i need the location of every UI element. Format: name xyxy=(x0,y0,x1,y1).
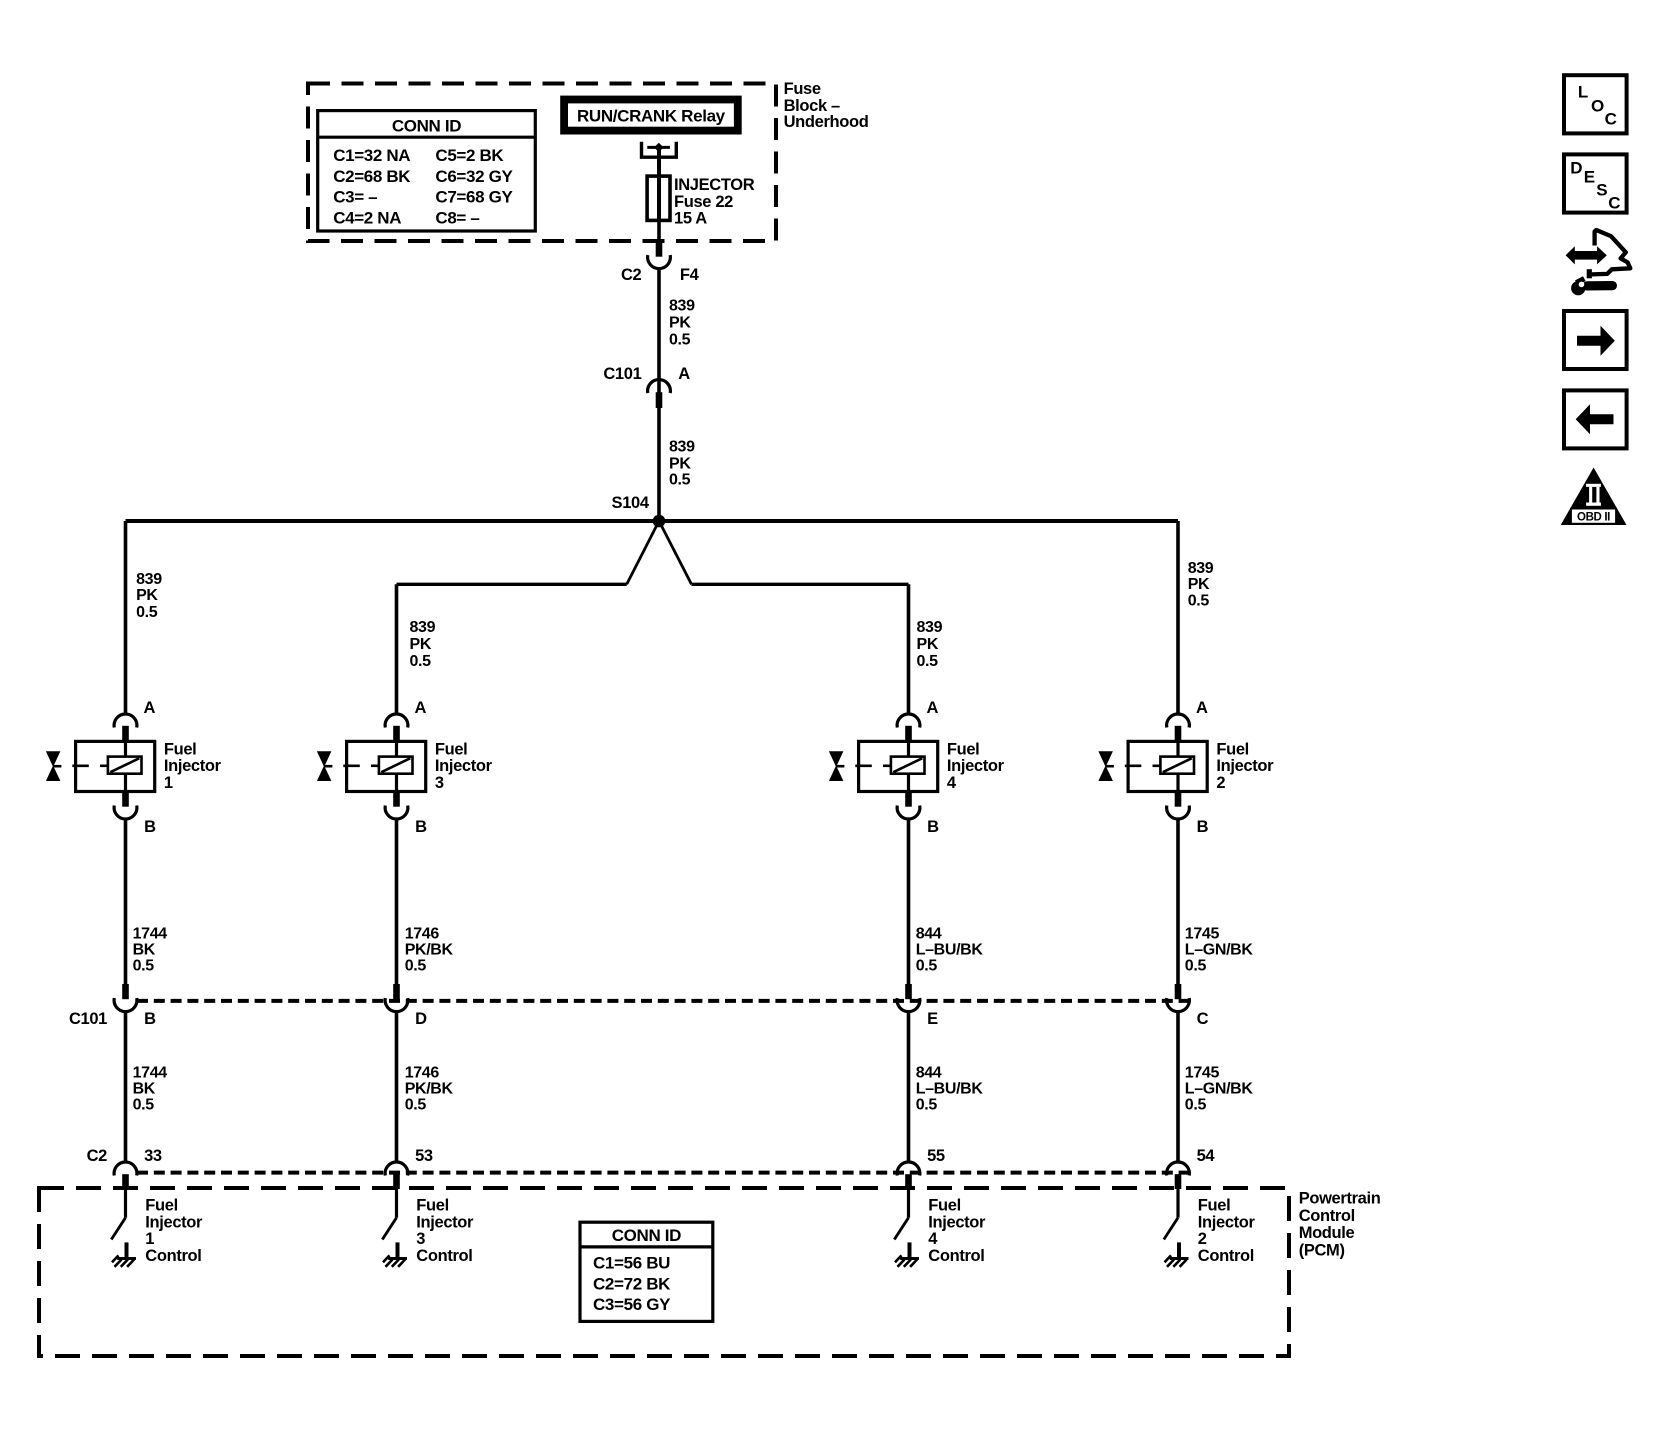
svg-text:839: 839 xyxy=(669,439,695,456)
wire C2-F4 to C101 xyxy=(657,268,661,380)
svg-text:S104: S104 xyxy=(612,494,650,512)
wire S104 branch down to injector 3 xyxy=(395,584,399,714)
svg-text:0.5: 0.5 xyxy=(917,653,939,670)
svg-text:Control: Control xyxy=(928,1247,984,1265)
svg-text:PK/BK: PK/BK xyxy=(405,941,454,958)
fuel injector 4 box xyxy=(859,741,938,791)
svg-text:L: L xyxy=(1578,82,1588,101)
svg-text:839: 839 xyxy=(136,571,162,588)
svg-text:A: A xyxy=(927,699,939,717)
svg-text:C8= –: C8= – xyxy=(435,209,479,228)
PCM driver wire (col 3) xyxy=(395,1189,398,1218)
wire injector 1 to C101 xyxy=(124,819,128,984)
svg-text:C: C xyxy=(1608,193,1620,212)
wire C101 to C2 (col 1) xyxy=(124,1011,128,1162)
svg-text:2: 2 xyxy=(1198,1230,1207,1248)
connector C2 male pin (col 3) xyxy=(393,1174,400,1189)
connector C101 male pin (col 1) xyxy=(122,984,129,999)
svg-text:1744: 1744 xyxy=(133,925,168,942)
fuel injector 3 coil xyxy=(379,757,413,774)
svg-text:PK: PK xyxy=(410,636,432,653)
fuel injector 4 internal wire top xyxy=(907,741,910,757)
svg-text:0.5: 0.5 xyxy=(136,604,158,621)
svg-text:RUN/CRANK Relay: RUN/CRANK Relay xyxy=(577,107,726,126)
svg-text:A: A xyxy=(1196,699,1208,717)
svg-text:Injector: Injector xyxy=(1198,1213,1256,1231)
svg-text:INJECTOR: INJECTOR xyxy=(674,176,755,194)
fuse F22 INJECTOR 15A xyxy=(647,176,670,220)
wire relay to fuse xyxy=(657,148,661,177)
svg-text:0.5: 0.5 xyxy=(669,332,691,349)
svg-text:PK: PK xyxy=(917,636,939,653)
PCM driver switch (col 2) xyxy=(1164,1218,1178,1240)
svg-text:PK: PK xyxy=(1188,576,1210,593)
svg-text:Fuel: Fuel xyxy=(1198,1197,1231,1215)
svg-text:PK: PK xyxy=(669,456,691,473)
svg-text:Fuel: Fuel xyxy=(928,1197,961,1215)
svg-text:0.5: 0.5 xyxy=(1188,593,1210,610)
fuel injector 1 internal wire top xyxy=(124,741,127,757)
connector pin B cup (injector 1) xyxy=(114,806,137,820)
svg-text:839: 839 xyxy=(917,619,943,636)
connector pin B cup (injector 3) xyxy=(385,806,408,820)
svg-text:Underhood: Underhood xyxy=(784,113,869,131)
PCM driver switch (col 1) xyxy=(111,1218,125,1240)
svg-text:55: 55 xyxy=(927,1147,945,1165)
connector pin B cup (injector 2) xyxy=(1167,806,1190,820)
svg-text:0.5: 0.5 xyxy=(669,472,691,489)
connector pin B stub (injector 1) xyxy=(122,792,129,807)
connector C2 female cap (col 4) xyxy=(897,1162,920,1176)
connector ID table (PCM) xyxy=(580,1222,713,1321)
svg-text:0.5: 0.5 xyxy=(916,1097,938,1114)
fuel injector 3 internal wire bottom xyxy=(395,774,398,792)
icon OBD II triangle xyxy=(1561,468,1627,526)
connector pin B stub (injector 4) xyxy=(905,792,912,807)
svg-text:C3=56 GY: C3=56 GY xyxy=(593,1295,671,1314)
svg-text:CONN ID: CONN ID xyxy=(612,1226,681,1245)
svg-text:Fuel: Fuel xyxy=(164,741,197,759)
connector C101 female cup (col 1) xyxy=(114,998,137,1012)
svg-text:Fuel: Fuel xyxy=(416,1197,449,1215)
fuel injector 1 internal wire bottom xyxy=(124,774,127,792)
svg-text:B: B xyxy=(1197,818,1209,836)
svg-text:F4: F4 xyxy=(680,266,700,284)
wire S104 branch down to injector 2 xyxy=(1176,521,1180,715)
svg-text:Injector: Injector xyxy=(1216,757,1274,775)
PCM driver switch (col 4) xyxy=(894,1218,908,1240)
svg-text:1: 1 xyxy=(164,774,173,792)
svg-text:C3= –: C3= – xyxy=(333,188,377,207)
svg-text:1746: 1746 xyxy=(405,1064,440,1081)
connector C2 male pin (col 2) xyxy=(1175,1174,1182,1189)
svg-text:L–GN/BK: L–GN/BK xyxy=(1185,941,1254,958)
wire C101 to C2 (col 4) xyxy=(907,1011,911,1162)
fuel injector 2 box xyxy=(1128,741,1207,791)
connector C2 male pin (col 4) xyxy=(905,1174,912,1189)
icon forward arrow box xyxy=(1564,311,1627,369)
svg-text:(PCM): (PCM) xyxy=(1299,1242,1345,1260)
svg-text:C2: C2 xyxy=(87,1147,108,1165)
fuel injector 2 internal wire top xyxy=(1176,741,1179,757)
PCM driver wire (col 1) xyxy=(124,1189,127,1218)
wire fuse to C2 connector xyxy=(657,220,661,243)
fuel injector 1 box xyxy=(76,741,155,791)
svg-text:C4=2 NA: C4=2 NA xyxy=(333,209,401,228)
svg-text:C1=32 NA: C1=32 NA xyxy=(333,146,410,165)
svg-text:Fuel: Fuel xyxy=(435,741,468,759)
relay pin bracket xyxy=(642,142,677,157)
svg-text:0.5: 0.5 xyxy=(133,958,155,975)
connector pin A cap (injector 1) xyxy=(114,714,137,728)
fuse block underhood dashed box xyxy=(308,84,776,242)
wire S104 branch down to injector 1 xyxy=(124,521,128,715)
svg-text:OBD II: OBD II xyxy=(1577,511,1610,523)
connector C2 female cap (col 2) xyxy=(1167,1162,1190,1176)
svg-text:C: C xyxy=(1197,1010,1209,1028)
fuel injector 4 valve bowtie xyxy=(829,751,844,767)
svg-text:4: 4 xyxy=(928,1230,938,1248)
connector row C101 dashed line xyxy=(137,999,1190,1003)
svg-text:E: E xyxy=(1584,167,1595,186)
svg-text:Control: Control xyxy=(145,1247,201,1265)
svg-text:839: 839 xyxy=(1188,560,1214,577)
svg-text:1745: 1745 xyxy=(1185,925,1220,942)
svg-text:PK: PK xyxy=(669,315,691,332)
svg-text:33: 33 xyxy=(144,1147,162,1165)
wire injector 3 to C101 xyxy=(395,819,399,984)
fuel injector 4 dashed link xyxy=(855,764,872,767)
svg-text:0.5: 0.5 xyxy=(133,1097,155,1114)
svg-text:1745: 1745 xyxy=(1185,1064,1220,1081)
svg-text:L–BU/BK: L–BU/BK xyxy=(916,941,984,958)
connector C2 female cap (col 1) xyxy=(114,1162,137,1176)
svg-text:Control: Control xyxy=(1299,1207,1355,1225)
connector C101 male pin (col 3) xyxy=(393,984,400,999)
svg-text:C2=68 BK: C2=68 BK xyxy=(333,167,411,186)
svg-text:C101: C101 xyxy=(69,1010,107,1028)
svg-text:Injector: Injector xyxy=(164,757,222,775)
icon LOC box xyxy=(1564,75,1627,133)
connector ID table (fuse block) xyxy=(318,111,536,231)
connector row C2 dashed line xyxy=(137,1171,1190,1175)
icon DESC box xyxy=(1564,154,1627,212)
svg-text:C2: C2 xyxy=(621,266,642,284)
fuel injector 3 box xyxy=(347,741,426,791)
svg-text:D: D xyxy=(1570,158,1582,177)
connector pin A stub (injector 3) xyxy=(393,726,400,742)
svg-text:Fuel: Fuel xyxy=(1216,741,1249,759)
fuel injector 1 valve bowtie xyxy=(46,751,61,767)
svg-text:844: 844 xyxy=(916,1064,942,1081)
connector pin B cup (injector 4) xyxy=(897,806,920,820)
svg-text:BK: BK xyxy=(133,1080,156,1097)
svg-text:C5=2 BK: C5=2 BK xyxy=(435,146,504,165)
svg-text:B: B xyxy=(927,818,939,836)
connector C101-A male pin xyxy=(656,392,663,408)
svg-text:0.5: 0.5 xyxy=(916,958,938,975)
svg-text:B: B xyxy=(144,1010,156,1028)
svg-text:1: 1 xyxy=(145,1230,154,1248)
fuel injector 2 coil xyxy=(1160,757,1194,774)
svg-text:839: 839 xyxy=(410,619,436,636)
svg-text:0.5: 0.5 xyxy=(1185,958,1207,975)
svg-text:B: B xyxy=(144,818,156,836)
svg-text:Module: Module xyxy=(1299,1224,1355,1242)
connector pin A stub (injector 1) xyxy=(122,726,129,742)
svg-text:C2=72 BK: C2=72 BK xyxy=(593,1274,671,1293)
PCM driver wire (col 4) xyxy=(907,1189,910,1218)
svg-text:0.5: 0.5 xyxy=(1185,1097,1207,1114)
connector C101 female cup (col 2) xyxy=(1167,998,1190,1012)
svg-text:Fuel: Fuel xyxy=(145,1197,178,1215)
svg-text:C7=68 GY: C7=68 GY xyxy=(435,188,513,207)
fuel injector 3 internal wire top xyxy=(395,741,398,757)
svg-text:C: C xyxy=(1605,110,1617,129)
fuel injector 2 internal wire bottom xyxy=(1176,774,1179,792)
svg-text:Injector: Injector xyxy=(928,1213,986,1231)
connector C2-F4 male pin xyxy=(656,243,663,257)
svg-text:C6=32 GY: C6=32 GY xyxy=(435,167,513,186)
svg-text:0.5: 0.5 xyxy=(410,653,432,670)
svg-text:S: S xyxy=(1596,180,1607,199)
svg-text:C101: C101 xyxy=(603,365,641,383)
connector pin A cap (injector 4) xyxy=(897,714,920,728)
svg-text:0.5: 0.5 xyxy=(405,958,427,975)
svg-text:Powertrain: Powertrain xyxy=(1299,1189,1381,1207)
fuel injector 2 dashed link xyxy=(1125,764,1142,767)
svg-text:Control: Control xyxy=(416,1247,472,1265)
relay K RUN/CRANK box xyxy=(564,100,738,131)
connector C101 female cup (col 4) xyxy=(897,998,920,1012)
connector C101 male pin (col 2) xyxy=(1175,984,1182,999)
svg-text:839: 839 xyxy=(669,298,695,315)
connector C2 female cap (col 3) xyxy=(385,1162,408,1176)
connector C101 male pin (col 4) xyxy=(905,984,912,999)
wire branch horizontal to injector 4 xyxy=(692,583,909,586)
fuel injector 1 coil xyxy=(108,757,142,774)
powertrain control module dashed box xyxy=(39,1188,1289,1356)
connector C101 female cup (col 3) xyxy=(385,998,408,1012)
svg-text:O: O xyxy=(1591,97,1604,116)
connector pin A stub (injector 4) xyxy=(905,726,912,742)
splice S104 bus wire xyxy=(126,519,1179,523)
svg-text:2: 2 xyxy=(1216,774,1225,792)
wire S104 branch down to injector 4 xyxy=(907,584,911,714)
svg-text:L–BU/BK: L–BU/BK xyxy=(916,1080,984,1097)
svg-text:BK: BK xyxy=(133,941,156,958)
connector pin B stub (injector 2) xyxy=(1175,792,1182,807)
connector C2-F4 female cup xyxy=(648,255,671,269)
svg-text:1746: 1746 xyxy=(405,925,440,942)
svg-text:CONN ID: CONN ID xyxy=(392,116,461,135)
svg-text:PK: PK xyxy=(136,587,158,604)
connector C2 male pin (col 1) xyxy=(122,1174,129,1189)
svg-text:C1=56 BU: C1=56 BU xyxy=(593,1253,670,1272)
fuel injector 4 internal wire bottom xyxy=(907,774,910,792)
PCM driver wire (col 2) xyxy=(1176,1189,1179,1218)
connector pin A cap (injector 3) xyxy=(385,714,408,728)
fuel injector 1 dashed link xyxy=(72,764,89,767)
svg-text:D: D xyxy=(415,1010,427,1028)
svg-text:Fuel: Fuel xyxy=(947,741,980,759)
wire injector 4 to C101 xyxy=(907,819,911,984)
svg-text:Injector: Injector xyxy=(435,757,493,775)
wire S104 branch diagonal left xyxy=(627,521,659,584)
wire injector 2 to C101 xyxy=(1176,819,1180,984)
wire C101 to C2 (col 3) xyxy=(395,1011,399,1162)
svg-text:A: A xyxy=(678,365,690,383)
svg-text:L–GN/BK: L–GN/BK xyxy=(1185,1080,1254,1097)
ground (col 2) xyxy=(1177,1242,1181,1257)
wire S104 branch diagonal right xyxy=(659,521,692,584)
svg-text:A: A xyxy=(415,699,427,717)
connector pin B stub (injector 3) xyxy=(393,792,400,807)
connector C101-A female cap xyxy=(648,380,671,394)
splice S104 junction dot xyxy=(653,515,666,528)
svg-text:844: 844 xyxy=(916,925,942,942)
ground (col 1) xyxy=(125,1242,129,1257)
svg-text:53: 53 xyxy=(415,1147,433,1165)
icon back arrow box xyxy=(1564,390,1627,448)
svg-text:15 A: 15 A xyxy=(674,210,707,228)
PCM driver switch (col 3) xyxy=(382,1218,396,1240)
ground (col 3) xyxy=(396,1242,400,1257)
svg-text:54: 54 xyxy=(1197,1147,1216,1165)
svg-text:PK/BK: PK/BK xyxy=(405,1080,454,1097)
svg-text:1744: 1744 xyxy=(133,1064,168,1081)
svg-text:E: E xyxy=(927,1010,938,1028)
svg-text:Injector: Injector xyxy=(947,757,1005,775)
svg-text:Fuse 22: Fuse 22 xyxy=(674,193,733,211)
fuel injector 2 valve bowtie xyxy=(1098,751,1113,767)
svg-text:3: 3 xyxy=(435,774,444,792)
svg-text:Injector: Injector xyxy=(416,1213,474,1231)
wire branch horizontal to injector 3 xyxy=(397,583,627,586)
wire C101 to C2 (col 2) xyxy=(1176,1011,1180,1162)
svg-text:3: 3 xyxy=(416,1230,425,1248)
fuel injector 4 coil xyxy=(891,757,925,774)
fuel injector 3 valve bowtie xyxy=(317,751,332,767)
icon car adjust with wrench xyxy=(1592,230,1631,274)
ground (col 4) xyxy=(908,1242,912,1257)
fuel injector 3 dashed link xyxy=(343,764,360,767)
svg-text:Fuse: Fuse xyxy=(784,80,821,98)
svg-text:A: A xyxy=(144,699,156,717)
wire C101 to S104 xyxy=(657,380,661,521)
connector pin A stub (injector 2) xyxy=(1175,726,1182,742)
svg-text:B: B xyxy=(415,818,427,836)
svg-text:Injector: Injector xyxy=(145,1213,203,1231)
svg-text:4: 4 xyxy=(947,774,957,792)
svg-text:0.5: 0.5 xyxy=(405,1097,427,1114)
svg-text:Control: Control xyxy=(1198,1247,1254,1265)
connector pin A cap (injector 2) xyxy=(1167,714,1190,728)
